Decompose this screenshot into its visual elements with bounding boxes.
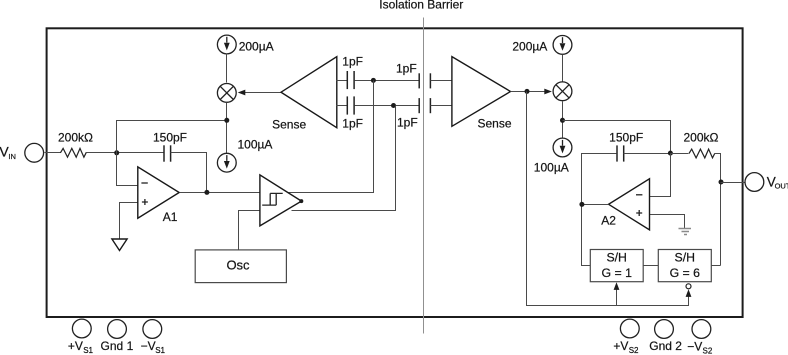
svg-text:IN: IN — [8, 152, 16, 161]
svg-text:G = 1: G = 1 — [601, 266, 632, 280]
svg-text:A1: A1 — [163, 210, 178, 224]
capacitor 150pF (left) — [163, 145, 165, 161]
resistor 200k (left) — [60, 148, 86, 157]
wire lower sense line — [337, 105, 348, 107]
mixer (left modulator) — [217, 84, 236, 103]
wire cap to A1 output — [171, 153, 207, 193]
wire VIN to resistor R1 — [45, 152, 61, 154]
svg-text:Gnd 2: Gnd 2 — [649, 339, 682, 353]
wire A1 non-inverting input to ground — [120, 203, 138, 239]
mixer (right demodulator) — [553, 82, 572, 101]
svg-text:Sense: Sense — [478, 117, 512, 131]
svg-text:G = 6: G = 6 — [670, 266, 701, 280]
node VIN terminal circle — [25, 143, 44, 162]
wire A2 non-inverting input to earth — [650, 215, 685, 229]
ground (A1) — [112, 239, 127, 251]
node: lower tap — [391, 103, 396, 108]
svg-text:−V: −V — [687, 340, 702, 354]
capacitor 1pF upper barrier — [418, 73, 420, 88]
wire A2 inverting input — [650, 154, 671, 197]
package border — [47, 28, 743, 317]
svg-text:200µA: 200µA — [239, 39, 274, 53]
current source 200uA (right) — [553, 36, 572, 55]
svg-text:Osc: Osc — [226, 258, 250, 273]
wire right sense output with arrow into mixer — [511, 91, 549, 93]
node: right sense output junction — [525, 89, 530, 94]
wire S/H G=6 output — [712, 265, 721, 267]
svg-text:Sense: Sense — [272, 118, 306, 132]
wire to A1 inverting input — [117, 153, 138, 186]
wire 200uA to mixer — [226, 54, 228, 83]
svg-text:S2: S2 — [703, 347, 713, 355]
svg-text:OUT: OUT — [775, 182, 788, 191]
resistor 200k (right) — [671, 153, 689, 155]
op-amp A1 — [138, 167, 179, 218]
wire A2 output down to S/H — [582, 204, 609, 206]
pin Gnd 2 — [655, 320, 674, 339]
node: A2 output junction — [579, 202, 584, 207]
svg-text:S/H: S/H — [675, 251, 696, 265]
wire A1 output to comparator — [180, 192, 260, 194]
comparator (Schmitt trigger) — [260, 175, 302, 226]
node: right summing junction — [668, 151, 673, 156]
wire right mixer down to 100uA — [562, 102, 564, 139]
svg-text:A2: A2 — [601, 214, 616, 228]
svg-text:100µA: 100µA — [238, 137, 273, 151]
svg-text:Isolation Barrier: Isolation Barrier — [379, 0, 463, 12]
wire lower tap line — [355, 105, 420, 107]
svg-text:Gnd 1: Gnd 1 — [101, 339, 134, 353]
wire mixer down through junction to 100uA — [226, 103, 228, 154]
svg-text:150pF: 150pF — [153, 131, 187, 145]
sense amp (left) — [281, 57, 337, 128]
wire 200uA to right mixer — [562, 55, 564, 82]
S/H G=6 block — [658, 250, 711, 282]
wire lower into right sense — [431, 105, 452, 107]
svg-text:200kΩ: 200kΩ — [684, 131, 719, 145]
node VOUT terminal circle — [745, 173, 764, 192]
svg-text:+V: +V — [613, 339, 628, 353]
wire feedback up to mixer junction (left) — [117, 121, 227, 153]
svg-text:100µA: 100µA — [534, 161, 569, 175]
capacitor 1pF upper-left — [346, 71, 348, 89]
op-amp A2 — [609, 179, 650, 230]
wire right feedback to cap node — [563, 121, 671, 154]
pin Gnd 1 — [108, 320, 127, 339]
current source 100uA (left) — [217, 153, 236, 172]
pin +VS2 — [620, 319, 639, 338]
pin -VS2 — [692, 320, 711, 339]
wire osc to comparator — [239, 211, 260, 251]
wire between S/H blocks — [644, 265, 659, 267]
wire to VOUT — [721, 182, 745, 184]
svg-text:S/H: S/H — [606, 251, 627, 265]
svg-text:−V: −V — [141, 339, 156, 353]
wire upper into right sense — [431, 80, 452, 82]
node: VOUT junction — [719, 180, 724, 185]
wire control line from right sense — [527, 92, 689, 306]
svg-text:200µA: 200µA — [512, 40, 547, 54]
svg-text:150pF: 150pF — [609, 131, 643, 145]
node: upper tap — [371, 78, 376, 83]
wire 200k to VOUT node — [715, 154, 721, 266]
svg-text:200kΩ: 200kΩ — [58, 131, 93, 145]
wire lower tap riser to comparator bus — [292, 106, 396, 211]
svg-text:1pF: 1pF — [396, 62, 417, 76]
arrow into S/H G=6 (open circle) — [686, 289, 692, 297]
earth ground (A2) — [679, 229, 692, 235]
oscillator block Osc — [195, 250, 286, 283]
wire cap left to A2 output — [582, 154, 617, 205]
isolation barrier line — [423, 18, 425, 334]
pin -VS1 — [143, 320, 162, 339]
current source 100uA (right) — [553, 138, 572, 157]
svg-text:1pF: 1pF — [397, 115, 418, 129]
wire cap right to node — [624, 153, 671, 155]
capacitor 1pF lower-left — [346, 96, 348, 114]
sense amp (right) — [452, 57, 511, 127]
current source 200uA (left) — [217, 35, 236, 54]
pin +VS1 — [72, 319, 91, 338]
wire upper tap riser to comparator bus — [288, 81, 374, 193]
node: left summing junction — [114, 150, 119, 155]
arrow into S/H G=1 — [614, 282, 620, 290]
svg-text:S1: S1 — [83, 346, 93, 355]
wire control branch to S/H G=1 — [616, 290, 618, 306]
capacitor 1pF lower barrier — [418, 98, 420, 113]
wire resistor to input node — [86, 152, 165, 154]
node: right mixer junction — [560, 118, 565, 123]
svg-text:S1: S1 — [155, 346, 165, 355]
svg-text:S2: S2 — [629, 346, 639, 355]
node: left mixer junction — [224, 118, 229, 123]
wire upper sense line — [337, 80, 348, 82]
S/H G=1 block — [590, 250, 643, 282]
wire sense output to mixer with arrow (left) — [245, 92, 281, 94]
svg-text:+V: +V — [68, 339, 83, 353]
wire upper tap line — [355, 80, 420, 82]
svg-text:1pF: 1pF — [342, 117, 363, 131]
svg-text:1pF: 1pF — [342, 55, 363, 69]
capacitor 150pF (right) — [616, 145, 618, 161]
node: A1 output junction — [204, 190, 209, 195]
